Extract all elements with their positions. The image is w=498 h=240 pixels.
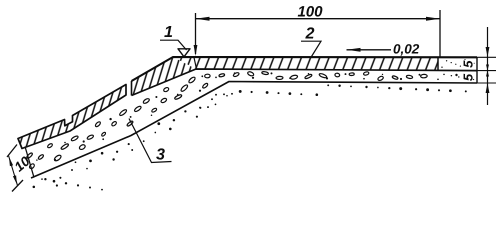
pavement right edge (end of hatched course) [437, 57, 439, 70]
thickness value 5 (top layer) [464, 60, 473, 67]
dim text 100 [298, 6, 323, 17]
edge-thickness dim arrow upper [9, 157, 13, 166]
label 2 [305, 27, 314, 38]
left extension/leader line [195, 13, 197, 54]
layer thickness dimension, right side [477, 56, 496, 58]
slope-arrow head [347, 48, 361, 52]
pavement-edge down arrowhead [194, 45, 198, 56]
edge thickness dim "10" : extension ticks [7, 145, 17, 158]
base layer pebbles (slope) [26, 75, 208, 169]
thickness value 5 (base layer) [464, 74, 473, 81]
dim-100 left arrowhead [196, 17, 210, 21]
lower hatched strip outline [18, 85, 126, 149]
level mark triangle [178, 49, 190, 57]
base course bottom line [31, 82, 477, 179]
fold line at slope/roadway junction [194, 58, 197, 70]
thickness arrows at interface [486, 65, 489, 71]
right extension line [439, 10, 441, 57]
lower slope hatched strip (with shingle notch) [18, 85, 126, 149]
edge thickness dim line [9, 156, 18, 186]
dimension line "100" [196, 18, 441, 20]
edge-thickness dim arrow lower [13, 175, 17, 184]
cross-slope arrow and value 0,02 [347, 49, 392, 51]
label 3 [156, 148, 165, 159]
label 1 [164, 26, 172, 37]
upper strip left cap [131, 81, 133, 96]
pavement wearing course (hatched, horizontal roadway) [173, 57, 438, 70]
wearing course bottom / base top line [132, 69, 478, 96]
thickness arrow top (down to y57) [486, 47, 490, 57]
thickness arrow bottom (up to y83) [486, 83, 490, 93]
upper slope strip hatched fill [132, 57, 197, 96]
dim-100 right arrowhead [426, 17, 440, 21]
dim text 10 [13, 156, 30, 173]
top surface line (slope + roadway) [132, 57, 478, 81]
base band left end cap [25, 147, 34, 178]
base layer pebbles (roadway) [205, 59, 475, 81]
subgrade dots [33, 84, 467, 190]
right cut edge of section [476, 57, 478, 83]
